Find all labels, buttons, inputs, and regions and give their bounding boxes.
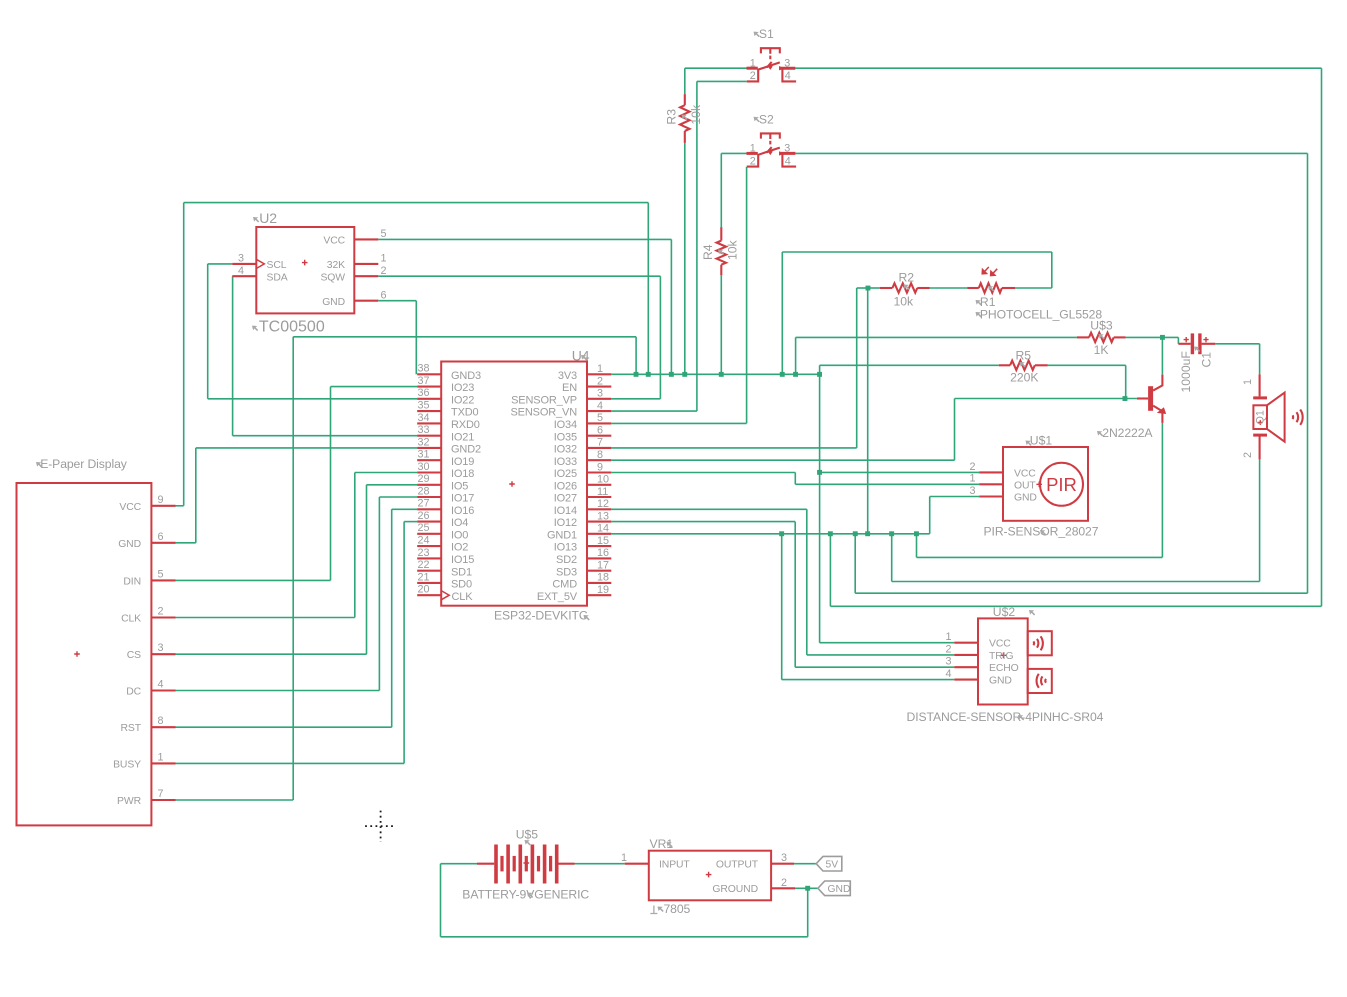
svg-text:6: 6 [381,289,387,301]
svg-text:1: 1 [969,473,975,485]
svg-text:3: 3 [945,656,951,668]
svg-text:2: 2 [969,461,975,473]
svg-text:3: 3 [784,143,790,155]
svg-text:IO33: IO33 [554,456,577,468]
svg-text:SD2: SD2 [556,554,577,566]
svg-text:25: 25 [418,522,430,534]
svg-text:SD1: SD1 [451,566,472,578]
svg-text:S1: S1 [759,27,774,41]
svg-text:29: 29 [418,473,430,485]
svg-text:10k: 10k [689,104,703,125]
svg-text:R4: R4 [701,244,715,260]
svg-text:26: 26 [418,510,430,522]
svg-text:6: 6 [597,425,603,437]
svg-text:E-Paper Display: E-Paper Display [40,457,128,471]
svg-text:2: 2 [158,606,164,618]
svg-text:IO15: IO15 [451,554,474,566]
svg-text:IO5: IO5 [451,480,468,492]
svg-text:2: 2 [597,375,603,387]
svg-text:10: 10 [597,474,609,486]
svg-text:DC: DC [126,687,141,698]
svg-text:3: 3 [784,58,790,70]
svg-text:RXD0: RXD0 [451,419,480,431]
svg-text:U2: U2 [259,210,277,226]
svg-text:5V: 5V [826,860,839,871]
svg-text:19: 19 [597,584,609,596]
svg-text:27: 27 [418,498,430,510]
svg-text:1: 1 [597,363,603,375]
svg-text:GND: GND [828,884,851,895]
svg-text:2N2222A: 2N2222A [1102,426,1153,440]
svg-text:INPUT: INPUT [659,860,690,871]
svg-text:IO17: IO17 [451,493,474,505]
svg-text:OUTPUT: OUTPUT [716,860,759,871]
svg-text:IO0: IO0 [451,529,468,541]
svg-text:R3: R3 [664,109,678,125]
svg-text:IO22: IO22 [451,394,474,406]
svg-text:IO12: IO12 [554,517,577,529]
svg-text:DIN: DIN [123,576,141,587]
svg-text:1K: 1K [1094,343,1109,357]
svg-text:3: 3 [781,852,787,864]
svg-text:8: 8 [158,715,164,727]
svg-text:SCL: SCL [267,260,287,271]
svg-text:GND2: GND2 [451,444,481,456]
svg-text:C1: C1 [1200,352,1214,368]
svg-text:R5: R5 [1016,348,1032,362]
svg-text:23: 23 [418,547,430,559]
svg-text:S2: S2 [759,112,774,126]
svg-text:Q1: Q1 [1255,410,1267,424]
svg-text:38: 38 [418,363,430,375]
svg-text:35: 35 [418,400,430,412]
svg-text:1: 1 [750,58,756,70]
svg-text:CLK: CLK [121,614,141,625]
svg-text:GND3: GND3 [451,370,481,382]
svg-text:IO25: IO25 [554,468,577,480]
svg-text:OUT: OUT [1014,480,1036,491]
svg-text:TC00500: TC00500 [259,319,325,336]
svg-text:IO23: IO23 [451,382,474,394]
svg-text:10k: 10k [894,294,915,308]
svg-text:30: 30 [418,461,430,473]
svg-text:IO4: IO4 [451,517,468,529]
svg-text:2: 2 [781,877,787,889]
svg-text:U4: U4 [572,348,590,364]
svg-text:CLK: CLK [452,591,474,603]
svg-text:SQW: SQW [320,272,345,283]
svg-text:EXT_5V: EXT_5V [537,591,578,603]
svg-text:GND: GND [118,539,141,550]
svg-text:7: 7 [158,788,164,800]
svg-text:11: 11 [597,486,608,498]
svg-text:IO27: IO27 [554,493,577,505]
svg-text:9: 9 [158,494,164,506]
svg-text:1000uF: 1000uF [1179,351,1193,392]
svg-text:BATTERY-9VGENERIC: BATTERY-9VGENERIC [462,887,589,901]
svg-text:5: 5 [381,228,387,240]
svg-text:IO21: IO21 [451,431,474,443]
svg-text:IO2: IO2 [451,542,468,554]
svg-text:R2: R2 [899,270,915,284]
svg-text:37: 37 [418,375,430,387]
svg-text:2: 2 [945,643,951,655]
svg-text:24: 24 [418,535,430,547]
svg-text:U$2: U$2 [993,605,1016,619]
svg-text:ECHO: ECHO [989,663,1019,674]
svg-text:VCC: VCC [119,502,141,513]
svg-text:TRIG: TRIG [989,651,1013,662]
svg-text:SD3: SD3 [556,566,577,578]
svg-text:10k: 10k [725,239,739,260]
svg-text:SENSOR_VP: SENSOR_VP [511,394,577,406]
svg-text:31: 31 [418,449,430,461]
svg-text:17: 17 [597,560,609,572]
svg-text:GND: GND [989,676,1012,687]
svg-text:CS: CS [127,650,141,661]
svg-text:220K: 220K [1010,371,1038,385]
svg-text:VCC: VCC [323,236,345,247]
svg-text:TXD0: TXD0 [451,407,479,419]
svg-text:3V3: 3V3 [558,370,577,382]
svg-text:1: 1 [158,751,164,763]
svg-text:4: 4 [785,155,791,167]
svg-text:6: 6 [158,531,164,543]
svg-text:IO18: IO18 [451,468,474,480]
svg-text:SENSOR_VN: SENSOR_VN [510,407,577,419]
svg-text:ESP32-DEVKITC: ESP32-DEVKITC [494,608,588,622]
svg-text:SD0: SD0 [451,579,472,591]
svg-text:IO13: IO13 [554,542,577,554]
svg-text:3: 3 [158,642,164,654]
svg-text:1: 1 [1242,379,1254,385]
svg-text:GND: GND [322,297,345,308]
svg-text:32: 32 [418,436,430,448]
svg-text:IO14: IO14 [554,505,577,517]
svg-text:EN: EN [562,382,577,394]
svg-text:RST: RST [121,723,142,734]
svg-text:2: 2 [750,70,756,82]
svg-text:IO35: IO35 [554,431,577,443]
svg-text:22: 22 [418,559,430,571]
svg-text:PHOTOCELL_GL5528: PHOTOCELL_GL5528 [980,307,1102,321]
svg-text:33: 33 [418,424,430,436]
svg-text:IO34: IO34 [554,419,577,431]
svg-text:IO32: IO32 [554,444,577,456]
svg-text:5: 5 [158,568,164,580]
svg-text:4: 4 [158,679,164,691]
svg-text:IO16: IO16 [451,505,474,517]
svg-text:14: 14 [597,523,609,535]
svg-text:1: 1 [621,852,627,864]
svg-text:2: 2 [381,265,387,277]
svg-text:20: 20 [418,584,430,596]
svg-text:4: 4 [597,400,603,412]
svg-text:SDA: SDA [267,272,288,283]
svg-text:21: 21 [418,571,430,583]
svg-text:5: 5 [597,412,603,424]
svg-text:1: 1 [945,631,951,643]
svg-text:PWR: PWR [117,796,142,807]
svg-text:4: 4 [945,668,951,680]
svg-text:2: 2 [750,155,756,167]
svg-text:12: 12 [597,498,609,510]
svg-text:GND1: GND1 [547,529,577,541]
svg-text:U$3: U$3 [1090,318,1113,332]
svg-text:IO26: IO26 [554,480,577,492]
svg-text:7: 7 [597,437,603,449]
svg-text:28: 28 [418,485,430,497]
svg-text:8: 8 [597,449,603,461]
svg-text:4: 4 [238,265,244,277]
svg-text:13: 13 [597,510,609,522]
svg-text:36: 36 [418,387,430,399]
svg-text:3: 3 [238,253,244,265]
svg-text:GROUND: GROUND [712,884,758,895]
svg-text:U$1: U$1 [1030,434,1053,448]
svg-text:IO19: IO19 [451,456,474,468]
svg-text:3: 3 [597,388,603,400]
svg-text:DISTANCE-SENSOR-4PINHC-SR04: DISTANCE-SENSOR-4PINHC-SR04 [907,710,1104,724]
svg-text:BUSY: BUSY [113,759,141,770]
svg-text:GND: GND [1014,493,1037,504]
svg-text:VCC: VCC [989,639,1011,650]
svg-text:PIR: PIR [1046,474,1077,495]
svg-text:CMD: CMD [552,579,577,591]
svg-text:4: 4 [785,70,791,82]
svg-text:18: 18 [597,572,609,584]
svg-text:15: 15 [597,535,609,547]
svg-text:32K: 32K [327,260,345,271]
svg-text:VCC: VCC [1014,468,1036,479]
svg-text:2: 2 [1242,452,1254,458]
svg-text:U$5: U$5 [516,828,539,842]
svg-text:3: 3 [969,485,975,497]
svg-text:16: 16 [597,547,609,559]
svg-text:1: 1 [381,253,387,265]
svg-text:9: 9 [597,461,603,473]
svg-text:1: 1 [750,143,756,155]
svg-text:7805: 7805 [664,902,691,916]
svg-text:34: 34 [418,412,430,424]
